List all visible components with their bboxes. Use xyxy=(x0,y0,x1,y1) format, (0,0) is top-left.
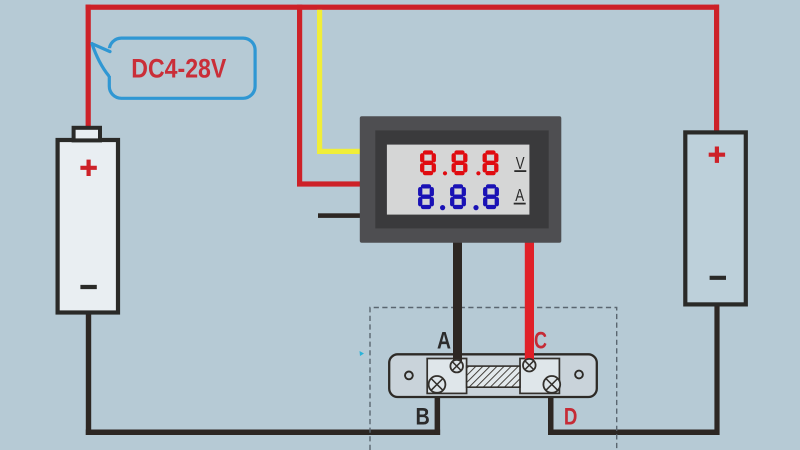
dashed outline box around shunt xyxy=(370,308,617,450)
battery BT2 minus symbol xyxy=(710,276,726,280)
stray cyan mark xyxy=(360,351,365,356)
shunt right terminal plate xyxy=(520,359,559,394)
wire: red vertical from bus to right battery xyxy=(714,5,719,135)
callout bubble DC4-28V xyxy=(92,38,255,98)
shunt mounting hole right xyxy=(575,371,583,379)
svg-text:D: D xyxy=(564,404,578,431)
wire: red sense wire from meter to terminal C xyxy=(525,240,534,365)
wire: top red horizontal bus xyxy=(86,5,719,10)
shunt left terminal plate xyxy=(427,359,466,394)
panel meter U1 display window xyxy=(387,145,530,215)
shunt R1 body bar xyxy=(389,354,597,397)
battery BT1 top cap terminal xyxy=(74,128,100,141)
screw terminal C xyxy=(523,359,536,372)
wire: black bottom horizontal left run xyxy=(86,430,440,436)
wire: yellow horizontal into meter left side xyxy=(317,149,362,154)
wire: black from left battery down xyxy=(86,310,91,435)
wire: black vertical from shunt terminal D xyxy=(548,384,554,435)
wire: red horizontal into meter left side xyxy=(297,181,362,186)
wire: red vertical from bus to left battery xyxy=(86,5,91,129)
A underline xyxy=(514,203,526,205)
panel meter U1 inner bezel xyxy=(375,130,548,228)
svg-text:B: B xyxy=(416,404,430,431)
screw terminal D xyxy=(543,376,560,393)
screw terminal B xyxy=(429,376,446,393)
wire: black vertical to shunt terminal B xyxy=(435,384,441,435)
screw terminal A xyxy=(450,360,463,373)
svg-text:A: A xyxy=(515,185,524,205)
wire: yellow vertical from bus xyxy=(317,10,322,154)
battery BT2 plus symbol xyxy=(709,147,725,163)
panel meter U1 outer frame xyxy=(360,116,562,243)
shunt resistance element (hatched) xyxy=(467,366,520,387)
V underline xyxy=(514,170,526,172)
svg-text:C: C xyxy=(534,328,547,355)
wire: red vertical branch to meter xyxy=(297,5,302,186)
voltmeter digits 8.8.8 (red) xyxy=(422,153,496,176)
battery BT1 minus symbol xyxy=(80,285,96,289)
wire: black bottom horizontal right run xyxy=(548,430,720,436)
battery BT2 (right) body xyxy=(685,132,746,304)
wire: black sense wire from meter to terminal A xyxy=(453,240,462,366)
ammeter digits 8.8.8 (blue) xyxy=(420,186,497,210)
wire: black vertical to right battery xyxy=(714,302,719,435)
battery BT1 (left) body xyxy=(58,140,118,313)
svg-text:DC4-28V: DC4-28V xyxy=(131,54,226,84)
wire: black stub into meter left side xyxy=(318,213,362,218)
svg-text:V: V xyxy=(516,153,525,173)
svg-text:A: A xyxy=(437,327,451,354)
battery BT1 plus symbol xyxy=(80,160,96,176)
shunt mounting hole left xyxy=(405,372,413,380)
